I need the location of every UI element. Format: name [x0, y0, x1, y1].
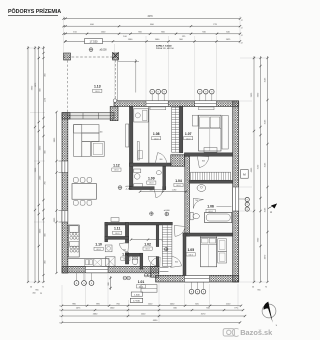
level marker living	[118, 186, 122, 190]
door into 1.06 arc	[193, 198, 203, 208]
svg-text:50: 50	[252, 287, 254, 289]
svg-text:1.13: 1.13	[94, 85, 101, 89]
svg-text:1.04: 1.04	[175, 179, 182, 183]
dining table	[72, 184, 96, 200]
north arrow	[262, 304, 276, 318]
entrance door opening in south wall	[160, 266, 169, 272]
bottom dimension chain row 4	[62, 322, 240, 324]
svg-text:75: 75	[241, 19, 243, 21]
dining chairs bottom row	[73, 200, 78, 205]
dishwasher with cross	[93, 259, 101, 266]
entrance door arc	[150, 257, 160, 267]
toilet 1.03	[132, 258, 138, 265]
laundry unit in strip	[134, 109, 149, 122]
interior wall 1.08/1.07 vertical	[179, 106, 182, 152]
svg-text:ŠÍRKA 170, HR.150: ŠÍRKA 170, HR.150	[156, 47, 175, 50]
interior wall under 1.07 horizontal	[184, 153, 232, 156]
svg-text:75: 75	[241, 42, 243, 44]
washbasin 1.06	[197, 185, 206, 192]
interior wall hall/1.05 vertical	[183, 233, 186, 276]
shower 1.03	[105, 257, 115, 267]
door arc vestibule	[119, 242, 128, 252]
terrace 1.13 dashed outline	[63, 56, 118, 58]
terrace corner column NE	[113, 53, 119, 60]
svg-text:700: 700	[195, 200, 198, 202]
interior wall living/strip vertical	[129, 106, 133, 189]
interior dim line hall	[131, 239, 163, 241]
sofa living room	[74, 125, 99, 157]
right vertical dimension chain 3	[267, 56, 269, 282]
svg-text:75: 75	[241, 34, 243, 36]
svg-text:±0,000: ±0,000	[99, 50, 107, 52]
bottom dimension chain row 1	[62, 305, 241, 307]
level marker hall lower	[164, 247, 168, 251]
kitchen window bubbles	[74, 281, 79, 286]
left vertical dimension chain 2	[34, 46, 36, 282]
entrance step	[141, 285, 157, 293]
svg-text:450: 450	[32, 293, 35, 295]
right vertical dimension chain 2	[260, 56, 262, 282]
svg-text:1.600: 1.600	[134, 294, 140, 296]
watermark Bazos.sk	[223, 328, 273, 337]
wall column below terrace NE column	[110, 106, 118, 120]
living room north glazing band	[68, 113, 114, 119]
interior wall corridor/1.06 vertical	[185, 156, 190, 236]
driveway edge lines	[118, 59, 139, 93]
svg-text:17.530: 17.530	[133, 301, 140, 303]
bathtub 1.06	[205, 212, 232, 222]
east window dimension bubbles	[245, 197, 249, 201]
hall top wall	[129, 222, 172, 225]
extension lines right	[240, 58, 269, 282]
svg-text:PÔDORYS PRÍZEMIA: PÔDORYS PRÍZEMIA	[8, 7, 61, 15]
glazing mullion ticks	[83, 113, 99, 119]
leader line 1.06	[217, 206, 232, 208]
dashed line above terrace to column	[115, 60, 117, 101]
level marker hall	[165, 212, 169, 216]
north window 1 (room 1.08)	[146, 101, 168, 107]
level marker entrance pair	[144, 273, 148, 277]
extension lines left	[27, 48, 45, 282]
svg-text:1.080: 1.080	[172, 189, 177, 191]
svg-text:1.07: 1.07	[185, 132, 192, 136]
svg-text:25: 25	[40, 293, 42, 295]
door 1.01 to 1.02 arc	[148, 256, 157, 265]
svg-text:75: 75	[42, 287, 44, 289]
svg-text:800: 800	[202, 160, 205, 162]
north wall	[114, 101, 239, 107]
nightstand 1.05 a	[218, 239, 227, 251]
south wall left section	[62, 266, 159, 272]
marker box M	[241, 170, 249, 179]
kitchen counter west run	[68, 225, 79, 257]
north window 2 bubbles	[198, 89, 203, 94]
pantry 1.11 walls	[105, 222, 108, 241]
section arrow A	[271, 204, 277, 209]
south window room 1.05	[185, 275, 210, 282]
interior wall 1.06/1.05	[183, 233, 233, 236]
wall 1.02/1.03 horizontal	[128, 253, 143, 256]
bottom dimension chain row 2	[62, 309, 243, 311]
top dimension chain row 3	[64, 33, 241, 35]
svg-text:700: 700	[123, 250, 126, 252]
toilet 1.06	[190, 212, 193, 219]
svg-text:75: 75	[241, 27, 243, 29]
top dimension chain row 1	[64, 18, 241, 20]
door 1.08 opening with arc	[155, 153, 167, 164]
level marker plus-minus 0,000	[89, 48, 93, 52]
svg-text:1.12: 1.12	[113, 163, 120, 167]
svg-text:1.01: 1.01	[138, 280, 145, 284]
radiator under north window 1	[150, 107, 166, 110]
right vertical dimension chain 1	[253, 56, 255, 282]
oven unit	[70, 242, 80, 247]
west window kitchen	[62, 211, 68, 223]
interior wall 1.09 bottom	[129, 187, 154, 190]
survey X marker on NE terrace column	[112, 52, 118, 58]
svg-text:400: 400	[100, 131, 103, 133]
chimney block	[171, 155, 185, 166]
svg-text:50: 50	[30, 287, 32, 289]
svg-text:1.02: 1.02	[144, 242, 151, 246]
kitchen sink double bowl	[85, 260, 88, 265]
bottom dimension chain row 3	[62, 315, 245, 317]
svg-text:1.11: 1.11	[114, 227, 121, 231]
kitchen counter south run	[68, 259, 109, 267]
south wall right section	[156, 275, 239, 282]
bed room 1.07	[199, 115, 221, 151]
north window 1 bubbles	[150, 89, 155, 94]
fridge top of west counter	[69, 226, 78, 232]
top dimension chain row 4 with 17.530 box	[65, 40, 240, 42]
wall 1.02/1.01 vertical lower	[156, 257, 159, 267]
bench 1.07 south	[204, 148, 217, 153]
north window 2 (room 1.07)	[195, 101, 217, 107]
bed room 1.05	[201, 237, 217, 267]
hallway wardrobe along 1.06 top	[191, 172, 231, 180]
wall 1.11/1.03 horizontal	[105, 236, 129, 239]
hall 1.02 left wall lower	[125, 253, 128, 264]
svg-text:17.530: 17.530	[90, 40, 98, 44]
extension lines bottom	[62, 274, 238, 323]
kitchen sink rings	[70, 246, 73, 249]
door corridor to 1.01 arc	[174, 226, 185, 237]
hob burners	[70, 232, 73, 235]
west wall	[62, 113, 68, 273]
extension lines top	[64, 16, 241, 100]
roof drain symbol at column	[113, 99, 117, 103]
toilet 1.09	[134, 169, 141, 173]
svg-text:1.10: 1.10	[95, 243, 102, 247]
level marker living second	[150, 212, 154, 216]
entrance stub dimension	[110, 276, 112, 290]
svg-text:1.06: 1.06	[207, 205, 214, 209]
armchair living room	[92, 141, 105, 156]
door into 1.05 arc	[171, 256, 182, 267]
interior wall 1.06 top	[189, 180, 233, 183]
svg-text:800: 800	[175, 262, 178, 264]
corridor small walls near 1.01	[151, 266, 159, 277]
svg-text:1.03: 1.03	[122, 252, 129, 256]
washing machine 1.03	[105, 245, 112, 252]
cabinet 1.09 lower	[134, 184, 143, 189]
svg-text:-1,650: -1,650	[126, 189, 133, 191]
radiator under north window 2	[199, 107, 215, 110]
thin partition strip/1.08	[148, 106, 150, 163]
svg-text:Bazoš.sk: Bazoš.sk	[240, 328, 273, 337]
terrace corner column NW	[64, 53, 71, 60]
wall 1.02/1.01 vertical upper	[156, 225, 159, 247]
interior dimension line under 1.09	[140, 191, 186, 193]
svg-text:1.09: 1.09	[148, 176, 155, 180]
left near-wall dimension line	[56, 112, 58, 273]
svg-text:965: 965	[35, 290, 38, 292]
east window bathroom	[233, 187, 239, 211]
dresser 1.07 east wall	[222, 115, 228, 149]
wardrobe room 1.08	[172, 107, 180, 152]
tv board living room	[126, 124, 129, 147]
extension tick marks at chain left ends	[64, 18, 66, 20]
svg-text:105: 105	[150, 189, 153, 191]
level marker porch pair	[123, 276, 127, 280]
south window 1.05 bubbles	[189, 289, 194, 294]
left vertical dimension chain 1	[27, 46, 29, 282]
door 1.07 opening with arc	[197, 156, 209, 167]
svg-text:800: 800	[160, 159, 163, 161]
dining chairs top row	[73, 178, 78, 183]
svg-text:75: 75	[265, 287, 267, 289]
interior wall 1.09 right vertical	[163, 166, 166, 189]
west window dining	[62, 161, 68, 173]
entrance spec box	[131, 292, 142, 296]
top dimension chain row 2	[64, 25, 241, 27]
hall wardrobe ladder	[162, 225, 172, 266]
hall 1.02 left wall upper	[125, 222, 128, 243]
left vertical dimension chain 4	[43, 46, 45, 282]
svg-text:900: 900	[108, 282, 110, 285]
interior wall under 1.08 horizontal	[129, 163, 171, 166]
headboard 1.05	[201, 234, 217, 238]
nightstand 1.05 b	[218, 251, 227, 263]
sink in 1.09	[156, 171, 161, 175]
nightstand 1.07 a	[192, 115, 198, 126]
bottom 17.530 box	[130, 298, 142, 302]
svg-text:±0,000: ±0,000	[125, 186, 132, 188]
svg-text:965: 965	[257, 290, 260, 292]
svg-text:3479: 3479	[147, 16, 153, 18]
east wall	[233, 101, 239, 282]
shelf strip right	[137, 142, 139, 161]
svg-text:±0,000: ±0,000	[164, 210, 170, 212]
svg-text:1.08: 1.08	[153, 132, 160, 136]
svg-text:1.05: 1.05	[187, 248, 194, 252]
left vertical dimension chain 3	[38, 46, 40, 282]
cabinet strip	[138, 151, 142, 159]
cabinet above pantry wall	[111, 218, 119, 222]
svg-text:ASFALT. VJAZD: ASFALT. VJAZD	[156, 44, 172, 47]
corner block west-north	[62, 113, 70, 119]
wall right of 1.03 vertical	[140, 253, 143, 269]
kitchen south window	[86, 266, 109, 272]
door 1.09 arc	[154, 189, 162, 197]
